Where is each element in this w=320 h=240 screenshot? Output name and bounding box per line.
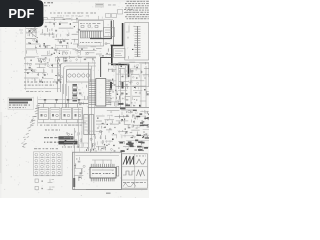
U2 area small parts [133, 25, 135, 27]
IF shield dark bars [119, 103, 124, 105]
symbol legend row 1 [35, 179, 38, 182]
waveform cell B [136, 155, 138, 158]
left edge scan shadow [0, 112, 2, 184]
branch bus wire left elbow [90, 21, 111, 39]
filter cell 1 [44, 100, 46, 104]
sparse marks above U1 [78, 16, 82, 18]
IC U1 pin comb [80, 30, 103, 32]
IC U4 horizontal DIP [90, 167, 116, 178]
PDF badge overlay [0, 0, 43, 27]
vertical wire left in box [73, 152, 75, 190]
dark component bar 2 [122, 82, 124, 89]
jumper box 1 [106, 14, 111, 18]
component labels right strip (darker dashes) [140, 122, 143, 123]
schematic left border wire [25, 20, 27, 90]
caption text above bottom box [62, 147, 63, 148]
IF section texture [24, 57, 35, 59]
IC U2 vertical ladder [137, 26, 139, 57]
ground rail wire long [88, 107, 149, 109]
vertical wires left strip lower [79, 108, 83, 148]
figure caption text [26, 90, 29, 93]
power block base rail [38, 122, 86, 124]
symbol legend row 2 [35, 186, 38, 189]
filter cell 2 [56, 100, 58, 104]
note text lines mid-left [24, 82, 26, 83]
parts list text block top-right [127, 1, 130, 2]
note text small top-middle-right [108, 4, 111, 7]
bottom border line [86, 189, 148, 191]
video board box right-middle [119, 63, 149, 87]
branch bus wire down [101, 58, 112, 78]
filter cell 3 [67, 100, 69, 104]
waveform cell D [137, 170, 145, 176]
handwritten pencil note (diagonal) [36, 104, 38, 107]
waveform grid box [122, 154, 148, 188]
texture right of U1 [96, 42, 102, 44]
service stamp box [8, 98, 34, 110]
capacitor right of U4 [117, 167, 119, 177]
tuner section texture [36, 17, 48, 19]
transistor row box [67, 70, 91, 83]
main board box bottom [73, 152, 122, 189]
table dark cell row 1 [44, 137, 47, 138]
filter cell 4 [78, 100, 80, 104]
dark component bar 1 [110, 82, 112, 89]
waveform bottom strip [123, 181, 126, 184]
waveform cell C [123, 171, 135, 175]
legend header text [34, 148, 37, 149]
svg-text:PDF: PDF [8, 6, 34, 21]
waveform sawtooth cell A (dark) [123, 156, 134, 165]
rail wire y50 right [75, 50, 96, 52]
antenna symbol [26, 29, 36, 37]
wire up from bottom box [74, 128, 76, 152]
sync section texture [87, 130, 96, 132]
margin tick marks [19, 30, 23, 33]
wire right of stamp [37, 97, 39, 127]
mixer section texture below U1 [78, 47, 88, 49]
right-middle schematic texture [108, 62, 121, 64]
resistor chain column [73, 84, 78, 86]
wires below transistor row [63, 84, 69, 108]
jumper box 2 [112, 14, 117, 18]
handwritten subtitle line [50, 13, 52, 14]
regulator box in bus elbow [114, 49, 126, 58]
vertical feeder wire [112, 20, 114, 45]
main B+ bus wire (thick dark) [112, 23, 129, 77]
parts row above right box [118, 10, 123, 15]
board outline bus corner (nested lines) [61, 63, 97, 92]
vertical wires right column [116, 64, 146, 107]
page number mark [106, 193, 111, 194]
upper power rail [38, 99, 88, 101]
transistor legend grid box [34, 152, 63, 176]
table dark cell row 2 [44, 142, 45, 143]
top rail wire [26, 19, 113, 21]
chroma section texture right-lower [107, 109, 120, 111]
connector pin labels (dark ticks) [120, 150, 123, 152]
scatter parts left of U3 [90, 83, 93, 85]
page background [0, 0, 149, 198]
dark stub bottom-left of box [73, 178, 75, 187]
power rail [38, 103, 89, 105]
divider wire [24, 88, 60, 90]
flyback transformer tall boxes [84, 115, 88, 135]
inner border line [76, 155, 120, 157]
mid rail wire [26, 48, 76, 50]
doc title text [44, 2, 46, 3]
board border vertical lines center [88, 62, 90, 151]
wires above IC [92, 160, 112, 164]
connector block small [95, 3, 104, 8]
paper noise [118, 65, 121, 66]
degauss note text [45, 130, 47, 131]
IC U3 dark vertical DIP [96, 79, 106, 107]
IC U1 boxed block [79, 21, 104, 47]
AFC module box [104, 28, 115, 37]
sub-board box top-right [125, 23, 149, 61]
left components cluster in box [78, 161, 81, 163]
